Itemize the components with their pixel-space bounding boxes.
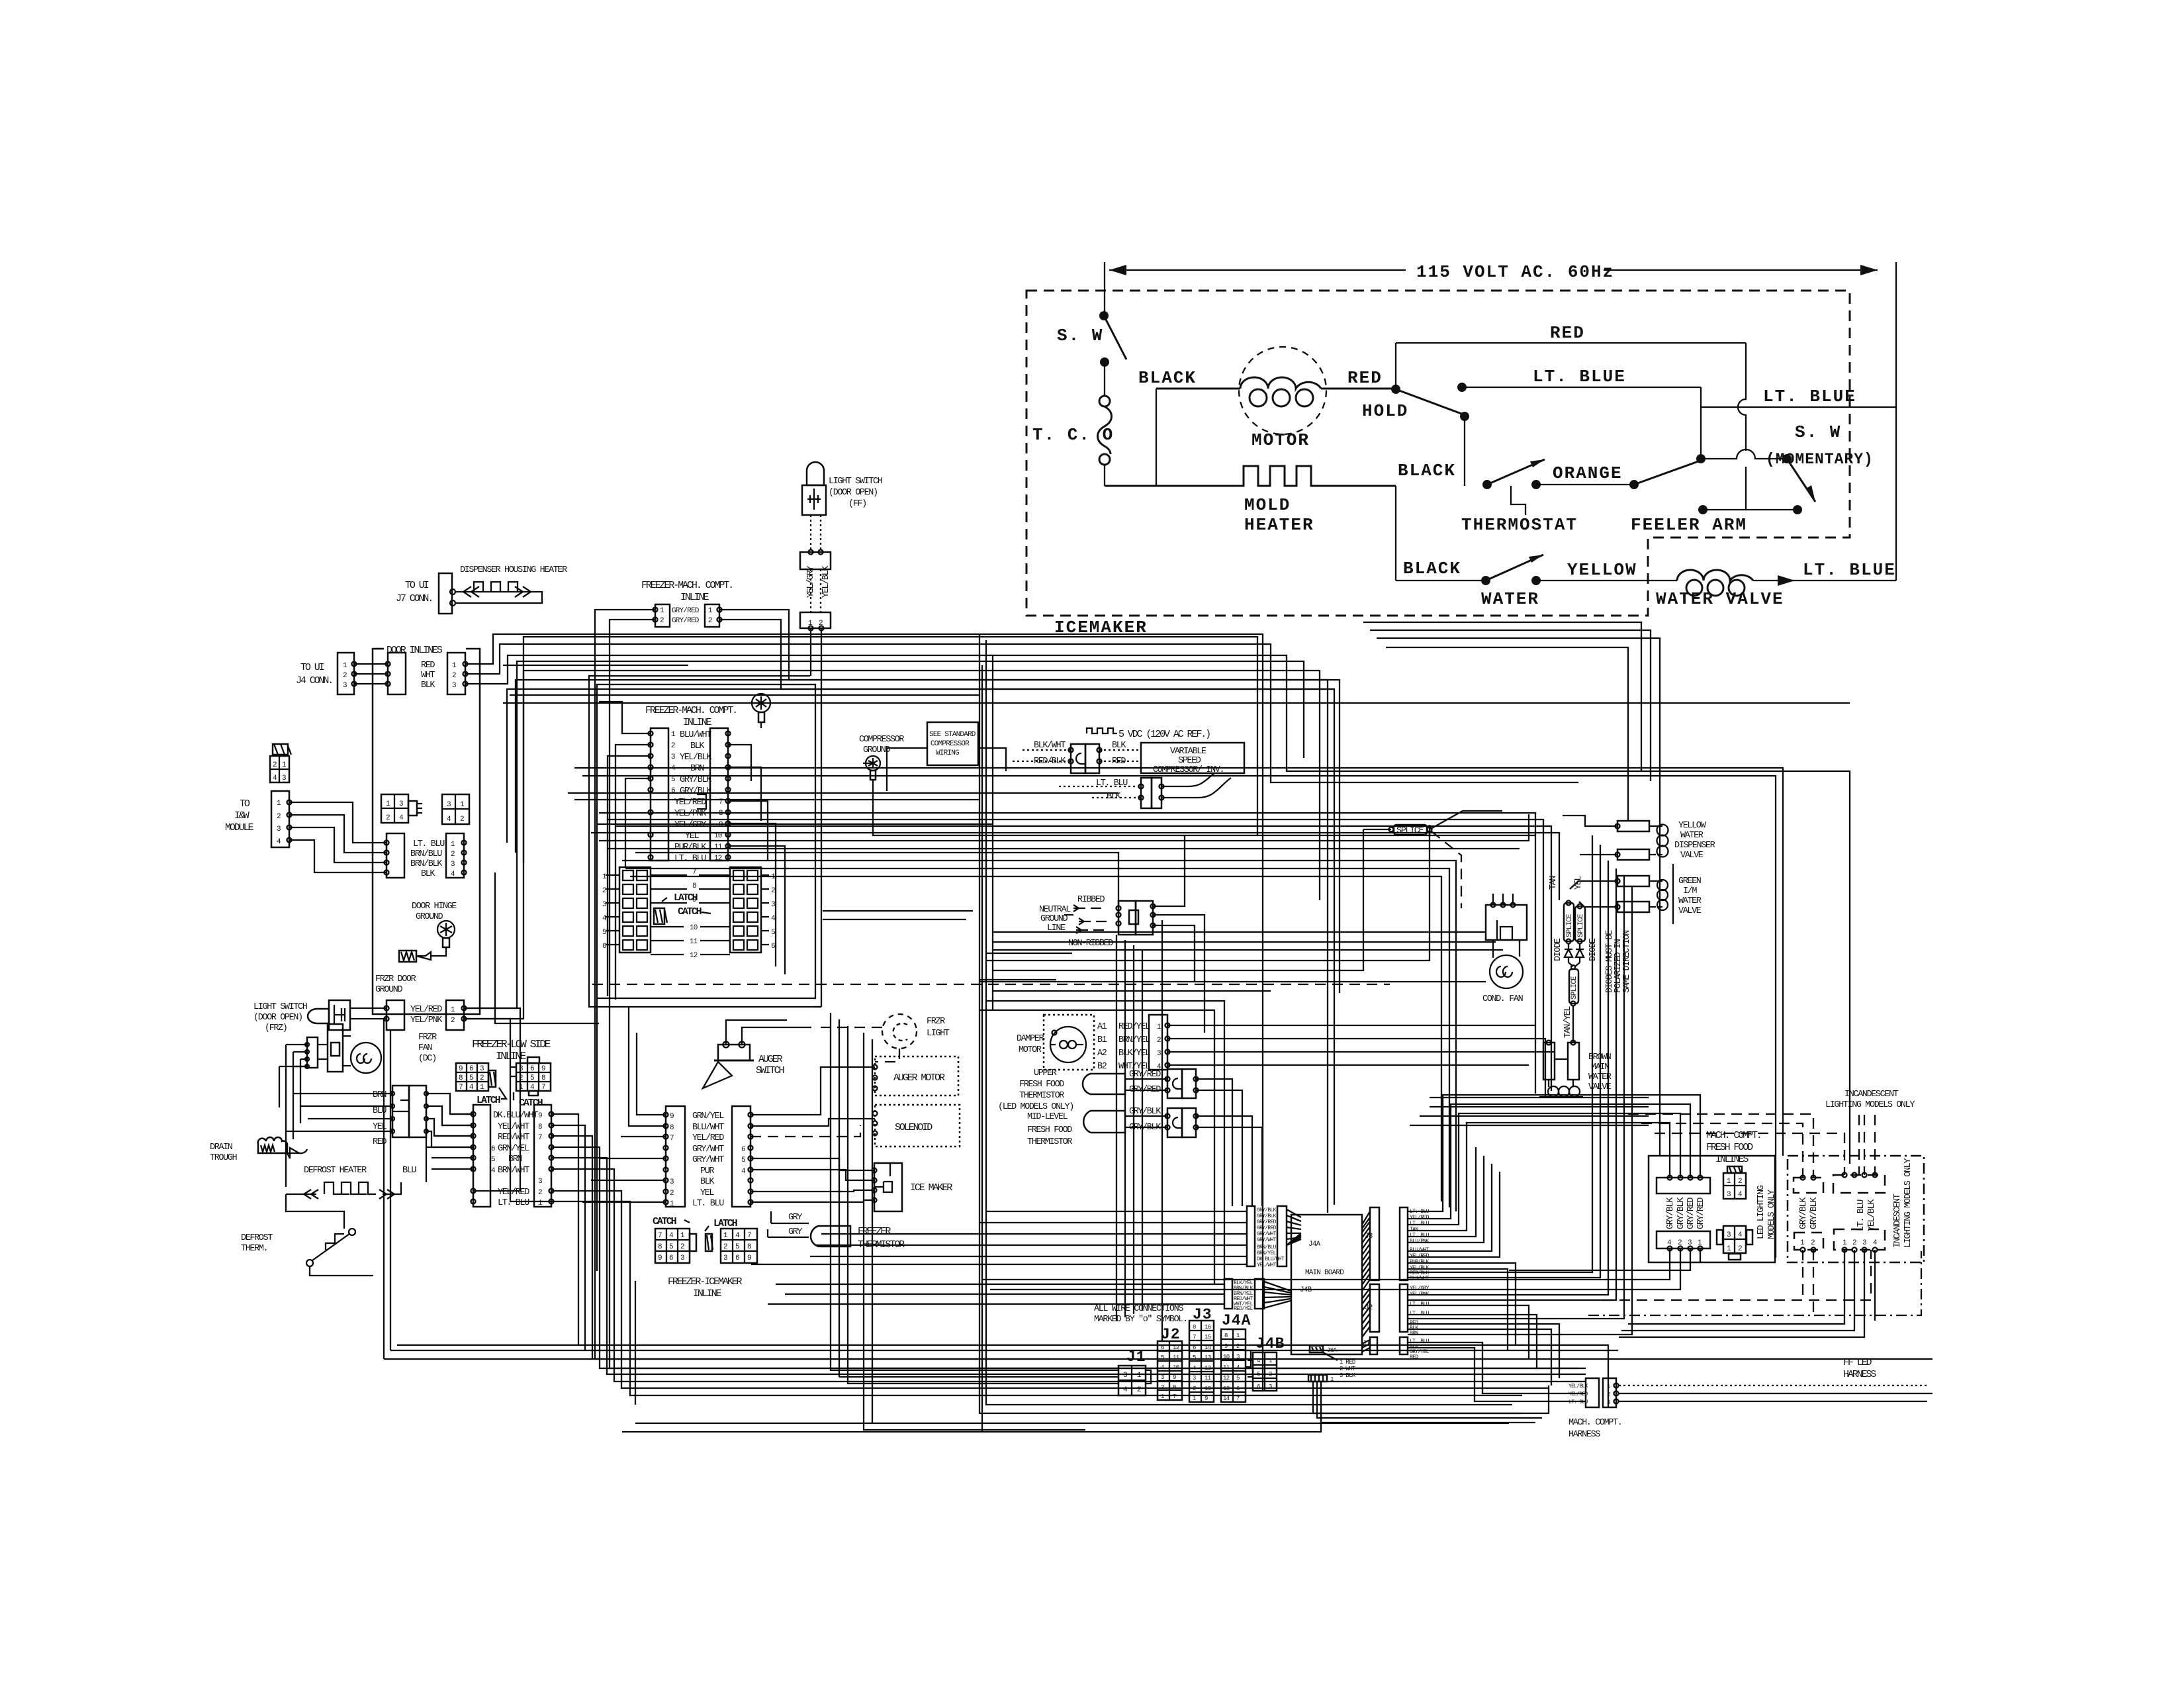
svg-text:3: 3 <box>1161 1374 1164 1381</box>
svg-text:SPLICE: SPLICE <box>1570 976 1578 1000</box>
svg-text:DK BLU/WHT: DK BLU/WHT <box>1257 1256 1285 1262</box>
svg-text:YEL/BLK: YEL/BLK <box>680 753 712 763</box>
svg-text:5: 5 <box>671 776 675 784</box>
svg-text:9: 9 <box>541 1065 545 1073</box>
svg-text:YEL/GRY: YEL/GRY <box>674 820 706 830</box>
svg-text:GRY/BLK: GRY/BLK <box>680 786 712 796</box>
svg-text:GRY/BLK: GRY/BLK <box>1799 1197 1809 1229</box>
splice pair + diodes <box>1553 901 1632 1043</box>
svg-text:YELLOW: YELLOW <box>1678 821 1707 831</box>
nested rects around freezer inline assembly <box>589 676 821 1007</box>
svg-text:DIODE: DIODE <box>1553 938 1563 961</box>
latch/catch 12-pin grid connectors <box>602 867 776 960</box>
svg-text:BLACK: BLACK <box>1403 559 1461 579</box>
svg-text:LT. BLU: LT. BLU <box>1410 1301 1430 1307</box>
neutral ground line connector <box>1039 835 1486 1033</box>
svg-text:YEL/RED: YEL/RED <box>692 1133 724 1143</box>
svg-text:6: 6 <box>469 1065 473 1073</box>
svg-text:GRY/BLK: GRY/BLK <box>1257 1213 1277 1219</box>
svg-text:(FRZ): (FRZ) <box>265 1023 287 1033</box>
svg-text:AUGER MOTOR: AUGER MOTOR <box>893 1072 945 1084</box>
svg-text:INLINE: INLINE <box>693 1288 722 1299</box>
svg-text:2: 2 <box>723 1243 727 1251</box>
svg-text:6: 6 <box>491 1145 495 1153</box>
svg-text:5: 5 <box>602 929 606 937</box>
svg-text:WIRING: WIRING <box>936 749 959 757</box>
svg-text:BLU: BLU <box>402 1166 416 1176</box>
svg-text:BLU: BLU <box>373 1106 387 1116</box>
svg-text:5 VDC (120V AC REF.): 5 VDC (120V AC REF.) <box>1118 729 1210 740</box>
svg-text:J4A: J4A <box>1308 1241 1321 1248</box>
svg-text:RED/YEL: RED/YEL <box>1234 1306 1253 1312</box>
svg-text:GRY/BLK: GRY/BLK <box>680 775 712 785</box>
svg-text:11: 11 <box>1173 1354 1179 1361</box>
svg-text:2: 2 <box>343 672 347 680</box>
svg-text:TAN: TAN <box>1410 1227 1418 1233</box>
svg-text:2: 2 <box>1137 1386 1141 1394</box>
svg-text:GRY/WHT: GRY/WHT <box>692 1155 724 1165</box>
svg-text:FREEZER: FREEZER <box>858 1226 891 1237</box>
svg-text:BLK: BLK <box>690 741 705 751</box>
svg-text:9: 9 <box>459 1065 463 1073</box>
svg-text:A1: A1 <box>1097 1022 1107 1032</box>
svg-text:3: 3 <box>1727 1231 1731 1239</box>
BRN BLU YEL RED inline <box>286 1086 473 1147</box>
auger motor <box>873 1056 959 1096</box>
green i/m water valve <box>1570 864 1702 924</box>
svg-text:SPLICE: SPLICE <box>1566 914 1574 937</box>
svg-text:2: 2 <box>1852 1239 1856 1247</box>
svg-text:12: 12 <box>714 855 722 863</box>
svg-text:3: 3 <box>1123 1372 1127 1380</box>
svg-text:YEL/RED: YEL/RED <box>1410 1253 1430 1259</box>
svg-text:BLU/PNK: BLU/PNK <box>1410 1239 1430 1244</box>
svg-text:BRN: BRN <box>690 764 704 774</box>
svg-text:AUGER: AUGER <box>758 1054 783 1065</box>
svg-text:FREEZER-MACH. COMPT.: FREEZER-MACH. COMPT. <box>645 705 737 716</box>
J1 strip <box>1370 1337 1377 1354</box>
svg-text:FAN: FAN <box>418 1043 432 1053</box>
svg-text:WATER: WATER <box>1678 896 1702 906</box>
svg-text:8: 8 <box>538 1123 542 1131</box>
svg-text:VARIABLE: VARIABLE <box>1170 747 1206 757</box>
svg-text:7: 7 <box>1236 1395 1240 1402</box>
extra bus lines <box>592 984 1390 985</box>
svg-text:RED: RED <box>421 661 435 671</box>
svg-text:SPLICE: SPLICE <box>1577 914 1585 937</box>
svg-text:GRY: GRY <box>788 1213 802 1223</box>
svg-text:2: 2 <box>386 814 390 822</box>
svg-text:INLINE: INLINE <box>496 1050 527 1062</box>
svg-text:GRN/YEL: GRN/YEL <box>692 1111 724 1121</box>
svg-text:PUR/BLK: PUR/BLK <box>1410 1259 1430 1265</box>
svg-text:RIBBED: RIBBED <box>1077 895 1105 905</box>
svg-text:LT. BLU: LT. BLU <box>674 854 706 864</box>
svg-text:FEELER ARM: FEELER ARM <box>1631 515 1747 535</box>
freezer light bulb <box>752 694 770 712</box>
solenoid <box>873 1105 960 1147</box>
connector TO UI J7 <box>396 565 567 614</box>
svg-text:BRN/BLK: BRN/BLK <box>410 859 443 869</box>
door inlines box <box>373 645 480 1014</box>
svg-text:6: 6 <box>741 1146 745 1154</box>
top bus <box>464 634 1850 1390</box>
svg-text:YEL/WHT: YEL/WHT <box>1257 1262 1277 1268</box>
svg-text:VALVE: VALVE <box>1680 851 1704 861</box>
svg-text:GRY/BLK: GRY/BLK <box>1809 1197 1819 1229</box>
svg-text:DIODE: DIODE <box>1588 938 1598 961</box>
svg-text:7: 7 <box>541 1084 545 1092</box>
svg-text:S. W: S. W <box>1057 326 1103 346</box>
bottom black wire + mold heater <box>1105 389 1396 535</box>
motor <box>1138 347 1408 450</box>
svg-text:8: 8 <box>1224 1333 1228 1339</box>
svg-text:1: 1 <box>1236 1333 1240 1339</box>
bottom band from DK.BLU inline <box>551 665 1933 1432</box>
svg-text:2: 2 <box>452 672 456 680</box>
T.C.O <box>1032 396 1114 486</box>
svg-text:SOLENOID: SOLENOID <box>895 1122 933 1133</box>
svg-text:YEL/PNK: YEL/PNK <box>674 809 707 819</box>
svg-text:MOTOR: MOTOR <box>1019 1045 1042 1055</box>
svg-text:THERMISTOR: THERMISTOR <box>1027 1137 1072 1147</box>
svg-text:YELLOW: YELLOW <box>1567 560 1637 580</box>
svg-text:NON-RIBBED: NON-RIBBED <box>1068 939 1113 949</box>
svg-text:LT. BLU: LT. BLU <box>1410 1221 1430 1227</box>
svg-text:MAIN BOARD: MAIN BOARD <box>1305 1269 1344 1277</box>
svg-text:TO UI: TO UI <box>405 580 429 591</box>
svg-text:THERMISTOR: THERMISTOR <box>1019 1091 1064 1101</box>
svg-text:HOLD: HOLD <box>1362 401 1408 421</box>
svg-text:BLU/WHT: BLU/WHT <box>680 730 711 740</box>
svg-text:GRY/RED: GRY/RED <box>1686 1197 1696 1229</box>
svg-text:LIGHT SWITCH: LIGHT SWITCH <box>829 477 883 487</box>
svg-text:INLINE: INLINE <box>680 592 709 603</box>
svg-text:2: 2 <box>671 742 675 750</box>
svg-text:6: 6 <box>671 787 675 795</box>
svg-text:FRESH FOOD: FRESH FOOD <box>1019 1080 1064 1090</box>
svg-text:(MOMENTARY): (MOMENTARY) <box>1766 451 1874 468</box>
water valve <box>1656 560 1896 609</box>
J4B <box>1224 1279 1232 1309</box>
svg-text:YEL: YEL <box>1574 876 1584 890</box>
svg-text:DEFROST HEATER: DEFROST HEATER <box>304 1166 367 1176</box>
svg-text:3: 3 <box>670 1178 674 1186</box>
svg-text:LATCH: LATCH <box>713 1218 737 1229</box>
J1 J2 J3 J4A J4B grids <box>1118 1306 1285 1402</box>
svg-text:WHT: WHT <box>421 671 435 680</box>
svg-text:HARNESS: HARNESS <box>1843 1369 1876 1380</box>
svg-text:COMPRESSOR: COMPRESSOR <box>859 735 904 745</box>
mid 2x2 connector pairs <box>381 794 469 824</box>
svg-text:CATCH: CATCH <box>653 1216 676 1227</box>
svg-text:3: 3 <box>282 774 286 782</box>
splice (top) <box>1363 811 1502 908</box>
svg-text:14: 14 <box>1223 1395 1230 1402</box>
svg-text:BLACK: BLACK <box>1398 461 1456 481</box>
middle band <box>574 768 1783 1284</box>
5VDC label <box>1087 728 1210 740</box>
svg-text:12: 12 <box>690 952 698 960</box>
svg-text:3: 3 <box>771 901 775 909</box>
svg-text:T. C. O: T. C. O <box>1032 425 1114 445</box>
TO UI J4 connector row <box>296 653 468 694</box>
incandescent section <box>1788 1090 1924 1262</box>
svg-text:YEL/BLK: YEL/BLK <box>1569 1383 1588 1389</box>
svg-text:J7 CONN.: J7 CONN. <box>396 593 432 604</box>
svg-text:7: 7 <box>670 1135 674 1143</box>
svg-text:MACH. COMPT.: MACH. COMPT. <box>1706 1130 1761 1141</box>
svg-text:YEL/BLK: YEL/BLK <box>821 565 831 598</box>
svg-text:BLU/WHT: BLU/WHT <box>1410 1247 1430 1253</box>
svg-text:3: 3 <box>538 1178 542 1186</box>
vertical bundles <box>979 633 1522 1413</box>
svg-text:DAMPER: DAMPER <box>1017 1034 1044 1044</box>
svg-text:LIGHTING MODELS ONLY: LIGHTING MODELS ONLY <box>1825 1100 1915 1110</box>
svg-text:11: 11 <box>690 938 698 946</box>
svg-text:7: 7 <box>692 868 696 876</box>
svg-text:8: 8 <box>670 1124 674 1132</box>
svg-text:1: 1 <box>1193 1395 1196 1402</box>
svg-text:9: 9 <box>1224 1343 1228 1350</box>
svg-text:FREEZER-LOW SIDE: FREEZER-LOW SIDE <box>472 1038 551 1051</box>
svg-text:GRY/WHT: GRY/WHT <box>1257 1237 1277 1243</box>
svg-text:2: 2 <box>277 813 281 821</box>
svg-text:2: 2 <box>451 851 455 859</box>
svg-text:FREEZER-MACH. COMPT.: FREEZER-MACH. COMPT. <box>641 580 733 591</box>
svg-text:DEFROST: DEFROST <box>241 1233 273 1243</box>
svg-text:BLK: BLK <box>421 680 435 690</box>
mid-level fresh food thermistor <box>1027 1107 1262 1206</box>
upper fresh food thermistor <box>998 1068 1242 1206</box>
svg-text:YEL/BLK: YEL/BLK <box>1867 1199 1877 1231</box>
svg-text:5: 5 <box>669 1243 673 1251</box>
svg-text:2: 2 <box>451 1017 455 1025</box>
svg-text:SPEED: SPEED <box>1178 756 1201 766</box>
svg-text:(DOOR OPEN): (DOOR OPEN) <box>829 488 878 498</box>
svg-text:2: 2 <box>1811 1239 1815 1247</box>
svg-text:B2: B2 <box>1097 1062 1107 1072</box>
momentary line with hump <box>1696 422 1874 502</box>
svg-text:LT. BLU: LT. BLU <box>1569 1399 1588 1405</box>
svg-text:LT. BLU: LT. BLU <box>1856 1199 1866 1231</box>
svg-text:LT. BLU: LT. BLU <box>1410 1233 1430 1239</box>
svg-text:5: 5 <box>1236 1375 1240 1382</box>
svg-text:COND. FAN: COND. FAN <box>1482 994 1524 1004</box>
svg-text:A2: A2 <box>1097 1049 1107 1058</box>
svg-text:DISPENSER HOUSING HEATER: DISPENSER HOUSING HEATER <box>460 565 567 575</box>
svg-text:LT. BLUE: LT. BLUE <box>1533 367 1626 387</box>
svg-text:PUR: PUR <box>700 1166 714 1176</box>
svg-text:GRY/RED: GRY/RED <box>1696 1197 1706 1229</box>
svg-text:GRN/YEL: GRN/YEL <box>498 1144 529 1154</box>
svg-text:UPPER: UPPER <box>1034 1068 1057 1078</box>
svg-text:BLU/WHT: BLU/WHT <box>692 1123 724 1133</box>
svg-text:2: 2 <box>670 1190 674 1197</box>
svg-text:SEE STANDARD: SEE STANDARD <box>929 731 976 739</box>
svg-text:VALVE: VALVE <box>1678 906 1702 916</box>
svg-text:3: 3 <box>451 861 455 868</box>
LT.BLUE upper <box>1457 367 1701 459</box>
svg-text:RED: RED <box>1347 368 1383 388</box>
svg-text:LT. BLU: LT. BLU <box>413 839 445 849</box>
door hinge ground <box>399 902 457 962</box>
svg-text:2: 2 <box>602 887 606 895</box>
svg-text:5: 5 <box>1161 1354 1164 1361</box>
svg-text:(FF): (FF) <box>848 499 866 509</box>
svg-text:LT. BLUE: LT. BLUE <box>1803 560 1896 580</box>
svg-text:(LED MODELS ONLY): (LED MODELS ONLY) <box>998 1102 1073 1112</box>
svg-text:GRY: GRY <box>788 1227 802 1237</box>
auger switch <box>703 1020 811 1088</box>
svg-text:3: 3 <box>1269 1383 1272 1390</box>
svg-text:6: 6 <box>669 1254 673 1262</box>
svg-text:2: 2 <box>1236 1343 1240 1350</box>
svg-text:FRZR DOOR: FRZR DOOR <box>375 974 416 984</box>
svg-text:11: 11 <box>1205 1375 1211 1382</box>
svg-text:RED: RED <box>1550 323 1585 343</box>
svg-text:GROUND: GROUND <box>1040 914 1068 924</box>
svg-text:YEL/RED: YEL/RED <box>1410 1215 1430 1221</box>
svg-text:LT. BLU: LT. BLU <box>692 1199 724 1209</box>
svg-text:TO: TO <box>240 798 250 810</box>
freezer-icemaker inline grids <box>653 1216 757 1299</box>
svg-text:7: 7 <box>658 1232 662 1240</box>
svg-text:WATER: WATER <box>1680 831 1704 841</box>
svg-text:LIGHTING MODELS ONLY: LIGHTING MODELS ONLY <box>1903 1158 1913 1248</box>
svg-text:B1: B1 <box>1097 1035 1107 1045</box>
svg-text:6: 6 <box>602 943 606 951</box>
J4A label column + strip <box>1247 1206 1255 1266</box>
svg-text:12: 12 <box>1223 1375 1230 1382</box>
svg-text:6: 6 <box>735 1254 739 1262</box>
svg-text:3 BLK: 3 BLK <box>1340 1372 1356 1379</box>
svg-text:(DC): (DC) <box>418 1054 436 1064</box>
svg-text:9: 9 <box>538 1112 542 1120</box>
svg-text:CATCH: CATCH <box>519 1098 543 1109</box>
svg-text:SWITCH: SWITCH <box>756 1065 784 1076</box>
svg-text:BLK: BLK <box>421 869 435 879</box>
svg-text:THERM.: THERM. <box>241 1244 267 1254</box>
svg-text:BLK/WHT: BLK/WHT <box>1034 741 1066 751</box>
J8A <box>1310 1346 1323 1352</box>
svg-text:BRN: BRN <box>1410 1331 1418 1336</box>
svg-text:WATER: WATER <box>1481 589 1539 609</box>
svg-text:9: 9 <box>747 1254 751 1262</box>
svg-text:2: 2 <box>708 617 712 625</box>
svg-text:3: 3 <box>723 1254 727 1262</box>
svg-text:3: 3 <box>1727 1191 1731 1199</box>
compressor connector + variable speed box <box>1013 741 1244 775</box>
svg-text:MODULE: MODULE <box>225 822 254 833</box>
svg-text:8: 8 <box>747 1243 751 1251</box>
svg-text:5: 5 <box>530 1074 534 1082</box>
svg-text:BLK: BLK <box>700 1177 715 1187</box>
115V measure line <box>1105 262 1896 581</box>
svg-text:S. W: S. W <box>1795 422 1841 442</box>
svg-text:2: 2 <box>1738 1245 1742 1253</box>
svg-text:LATCH: LATCH <box>674 892 698 904</box>
svg-text:COMPRESSOR: COMPRESSOR <box>931 740 970 748</box>
svg-text:7: 7 <box>1193 1334 1196 1340</box>
right band to LED inlines <box>982 1095 1921 1337</box>
svg-text:BLK/WHT: BLK/WHT <box>1410 1276 1430 1282</box>
svg-text:3: 3 <box>680 1254 684 1262</box>
svg-text:LIGHT: LIGHT <box>927 1029 950 1039</box>
svg-text:LED LIGHTING: LED LIGHTING <box>1756 1185 1766 1239</box>
svg-text:7: 7 <box>459 1084 463 1092</box>
LT.BLU 4-pin inline <box>385 833 467 879</box>
svg-text:5: 5 <box>469 1074 473 1082</box>
frzr fan (dc) <box>286 1024 437 1073</box>
svg-text:6: 6 <box>771 943 775 951</box>
svg-text:3: 3 <box>399 800 403 808</box>
svg-text:5: 5 <box>491 1156 495 1164</box>
svg-text:GRY/RED: GRY/RED <box>1257 1225 1277 1231</box>
svg-text:TAN/YEL: TAN/YEL <box>1563 1006 1573 1038</box>
svg-text:1 RED: 1 RED <box>1340 1359 1355 1366</box>
svg-text:2: 2 <box>273 761 277 769</box>
yellow water dispenser valve <box>1563 816 1715 861</box>
svg-text:YEL: YEL <box>373 1122 387 1132</box>
svg-text:LIGHT SWITCH: LIGHT SWITCH <box>253 1002 308 1012</box>
svg-text:GRY/RED: GRY/RED <box>672 617 700 625</box>
svg-text:THERMOSTAT: THERMOSTAT <box>1461 515 1578 535</box>
svg-text:RED: RED <box>373 1137 387 1147</box>
svg-text:FRZR: FRZR <box>927 1017 945 1027</box>
light switch (door open) (FF) <box>800 462 883 1007</box>
svg-text:FRZR: FRZR <box>418 1033 437 1043</box>
svg-text:7: 7 <box>1173 1393 1176 1400</box>
svg-text:FREEZER-ICEMAKER: FREEZER-ICEMAKER <box>668 1276 743 1288</box>
svg-text:SPLICE: SPLICE <box>1396 826 1424 836</box>
LT.BLU BLK connector <box>1059 773 1231 808</box>
J3 strip right <box>1370 1207 1379 1280</box>
svg-text:3: 3 <box>480 1065 484 1073</box>
svg-text:115 VOLT AC. 60Hz: 115 VOLT AC. 60Hz <box>1416 262 1614 282</box>
svg-text:GRY/RED: GRY/RED <box>672 607 700 615</box>
svg-text:3: 3 <box>1862 1239 1866 1247</box>
svg-text:LT. BLU: LT. BLU <box>1410 1311 1430 1317</box>
svg-text:J4A: J4A <box>1222 1312 1251 1329</box>
svg-text:16: 16 <box>1205 1324 1211 1331</box>
svg-text:2: 2 <box>680 1243 684 1251</box>
svg-text:GRY/BLK: GRY/BLK <box>1676 1197 1686 1229</box>
svg-text:I/M: I/M <box>1683 886 1697 896</box>
svg-text:PUR/BLK: PUR/BLK <box>674 843 707 853</box>
svg-text:TAN: TAN <box>1549 876 1559 890</box>
svg-text:DISPENSER: DISPENSER <box>1674 841 1715 851</box>
svg-text:TO UI: TO UI <box>300 662 324 673</box>
svg-text:FRESH FOOD: FRESH FOOD <box>1706 1142 1753 1153</box>
red wire top <box>1396 323 1746 510</box>
svg-text:5: 5 <box>735 1243 739 1251</box>
svg-text:3: 3 <box>452 682 456 690</box>
left feed verticals <box>279 1045 307 1187</box>
svg-text:ALL WIRE CONNECTIONS: ALL WIRE CONNECTIONS <box>1094 1304 1183 1314</box>
svg-text:BRN/YEL: BRN/YEL <box>1257 1250 1277 1256</box>
svg-text:TROUGH: TROUGH <box>210 1153 238 1163</box>
svg-text:3: 3 <box>447 801 451 809</box>
svg-text:3: 3 <box>671 753 675 761</box>
svg-text:15: 15 <box>1205 1334 1211 1340</box>
svg-text:3: 3 <box>1193 1375 1196 1382</box>
svg-text:(DOOR OPEN): (DOOR OPEN) <box>253 1013 302 1023</box>
svg-text:6: 6 <box>1257 1383 1260 1390</box>
svg-text:CATCH: CATCH <box>678 906 702 917</box>
svg-text:MACH. COMPT.: MACH. COMPT. <box>1569 1418 1621 1428</box>
svg-text:BRN/BLU: BRN/BLU <box>410 849 442 859</box>
